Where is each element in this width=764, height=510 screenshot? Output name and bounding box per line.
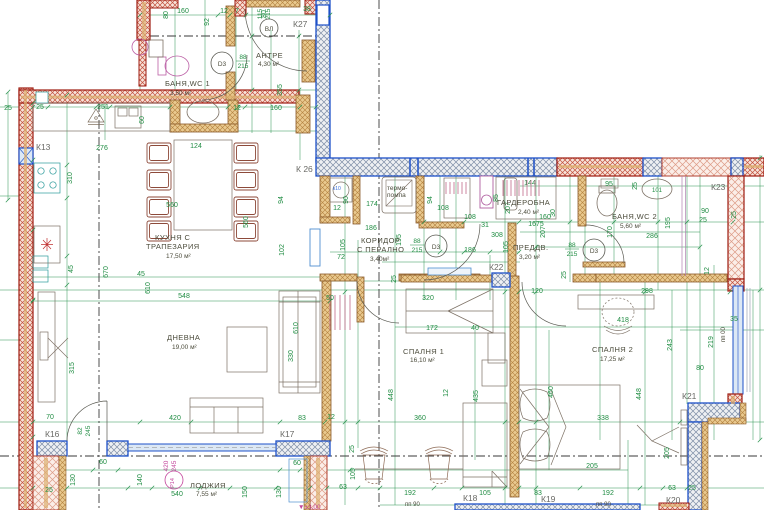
svg-text:31: 31 bbox=[481, 222, 489, 229]
svg-text:25: 25 bbox=[45, 487, 53, 494]
svg-text:105: 105 bbox=[340, 239, 347, 251]
svg-text:3,40м²: 3,40м² bbox=[370, 256, 390, 263]
svg-text:92: 92 bbox=[204, 18, 211, 26]
svg-text:25: 25 bbox=[561, 271, 568, 279]
svg-text:К16: К16 bbox=[45, 429, 60, 439]
svg-text:130: 130 bbox=[276, 486, 283, 498]
svg-text:207: 207 bbox=[540, 226, 547, 238]
svg-text:пп 90: пп 90 bbox=[405, 502, 421, 508]
svg-text:КОРИДОР: КОРИДОР bbox=[361, 236, 400, 245]
svg-text:95: 95 bbox=[605, 181, 613, 188]
svg-text:420: 420 bbox=[169, 415, 181, 422]
svg-text:5,60 м²: 5,60 м² bbox=[620, 223, 642, 230]
svg-text:25: 25 bbox=[632, 182, 639, 190]
svg-text:90: 90 bbox=[701, 208, 709, 215]
svg-text:215: 215 bbox=[238, 63, 249, 70]
svg-text:К23: К23 bbox=[711, 182, 726, 192]
svg-text:276: 276 bbox=[96, 145, 108, 152]
svg-text:ЛОДЖИЯ: ЛОДЖИЯ bbox=[190, 481, 226, 490]
svg-text:101: 101 bbox=[652, 188, 663, 194]
svg-text:40: 40 bbox=[471, 325, 479, 332]
svg-text:82: 82 bbox=[77, 427, 84, 435]
svg-text:ДНЕВНА: ДНЕВНА bbox=[167, 333, 200, 342]
svg-text:80: 80 bbox=[163, 11, 170, 19]
svg-text:310: 310 bbox=[67, 172, 74, 184]
svg-text:435: 435 bbox=[473, 390, 480, 402]
svg-text:83: 83 bbox=[298, 415, 306, 422]
svg-text:63: 63 bbox=[339, 484, 347, 491]
svg-text:12: 12 bbox=[233, 105, 241, 112]
svg-text:12: 12 bbox=[327, 414, 335, 421]
svg-text:205: 205 bbox=[586, 463, 598, 470]
svg-text:245: 245 bbox=[171, 460, 178, 471]
svg-text:70: 70 bbox=[46, 414, 54, 421]
svg-text:25: 25 bbox=[4, 105, 12, 112]
svg-text:12: 12 bbox=[220, 8, 228, 15]
svg-text:СПАЛНЯ 2: СПАЛНЯ 2 bbox=[592, 345, 633, 354]
svg-text:25: 25 bbox=[699, 217, 707, 224]
svg-text:25: 25 bbox=[349, 445, 356, 453]
svg-text:3,20 м²: 3,20 м² bbox=[519, 254, 541, 261]
svg-text:ВЛ: ВЛ bbox=[265, 26, 274, 33]
svg-text:251: 251 bbox=[97, 104, 109, 111]
svg-text:16,10 м²: 16,10 м² bbox=[410, 357, 436, 364]
svg-text:2,40 м²: 2,40 м² bbox=[518, 209, 540, 216]
svg-text:D3: D3 bbox=[432, 244, 441, 251]
svg-text:ГАРДЕРОБНА: ГАРДЕРОБНА bbox=[497, 198, 550, 207]
svg-text:338: 338 bbox=[597, 415, 609, 422]
svg-text:610: 610 bbox=[145, 282, 152, 294]
svg-text:25: 25 bbox=[731, 211, 738, 219]
svg-text:448: 448 bbox=[636, 388, 643, 400]
svg-text:115: 115 bbox=[257, 8, 264, 19]
svg-text:К13: К13 bbox=[36, 142, 51, 152]
svg-text:ПРЕДДВ.: ПРЕДДВ. bbox=[513, 243, 548, 252]
svg-text:К18: К18 bbox=[463, 493, 478, 503]
svg-text:к10: к10 bbox=[333, 186, 341, 192]
svg-text:315: 315 bbox=[69, 362, 76, 374]
svg-text:160: 160 bbox=[177, 8, 189, 15]
svg-text:63: 63 bbox=[668, 485, 676, 492]
svg-text:25: 25 bbox=[36, 104, 44, 111]
svg-text:144: 144 bbox=[524, 180, 536, 187]
svg-text:7,55 м²: 7,55 м² bbox=[196, 491, 218, 498]
svg-text:17,25 м²: 17,25 м² bbox=[600, 356, 626, 363]
svg-text:172: 172 bbox=[426, 325, 438, 332]
svg-text:610: 610 bbox=[293, 322, 300, 334]
svg-text:БАНЯ,WC 1: БАНЯ,WC 1 bbox=[165, 79, 210, 88]
svg-text:термо-: термо- bbox=[387, 185, 407, 192]
svg-text:12: 12 bbox=[704, 267, 711, 275]
svg-text:3,50 м²: 3,50 м² bbox=[170, 90, 192, 97]
svg-text:670: 670 bbox=[103, 266, 110, 278]
svg-text:12: 12 bbox=[443, 389, 450, 397]
svg-text:19,00 м²: 19,00 м² bbox=[172, 344, 198, 351]
svg-text:120: 120 bbox=[531, 288, 543, 295]
svg-text:245: 245 bbox=[85, 425, 92, 436]
svg-text:94: 94 bbox=[427, 196, 434, 204]
svg-text:215: 215 bbox=[412, 247, 423, 254]
svg-text:140: 140 bbox=[137, 474, 144, 486]
svg-text:D3: D3 bbox=[590, 248, 599, 255]
svg-text:330: 330 bbox=[288, 350, 295, 362]
svg-text:460: 460 bbox=[548, 386, 555, 398]
svg-text:СПАЛНЯ 1: СПАЛНЯ 1 bbox=[403, 347, 444, 356]
svg-text:108: 108 bbox=[437, 205, 449, 212]
svg-text:30: 30 bbox=[550, 209, 557, 217]
svg-text:205: 205 bbox=[664, 447, 671, 459]
svg-text:45: 45 bbox=[137, 271, 145, 278]
svg-text:418: 418 bbox=[617, 317, 629, 324]
svg-text:К 26: К 26 bbox=[296, 164, 313, 174]
svg-text:308: 308 bbox=[491, 232, 503, 239]
svg-text:17,50 м²: 17,50 м² bbox=[166, 253, 192, 260]
svg-text:D3: D3 bbox=[218, 61, 227, 68]
svg-text:548: 548 bbox=[178, 293, 190, 300]
svg-text:105: 105 bbox=[350, 468, 357, 480]
svg-text:88: 88 bbox=[568, 242, 576, 249]
svg-text:174: 174 bbox=[366, 201, 378, 208]
svg-text:560: 560 bbox=[166, 202, 178, 209]
svg-text:219: 219 bbox=[708, 336, 715, 348]
svg-text:90: 90 bbox=[343, 196, 350, 204]
svg-text:243: 243 bbox=[667, 339, 674, 351]
svg-text:35: 35 bbox=[730, 316, 738, 323]
svg-text:105: 105 bbox=[479, 490, 491, 497]
svg-text:12: 12 bbox=[333, 205, 341, 212]
svg-text:320: 320 bbox=[422, 295, 434, 302]
svg-text:Р14: Р14 bbox=[170, 478, 176, 488]
svg-text:192: 192 bbox=[602, 490, 614, 497]
svg-text:К20: К20 bbox=[666, 495, 681, 505]
svg-text:94: 94 bbox=[278, 196, 285, 204]
svg-text:130: 130 bbox=[70, 474, 77, 486]
svg-text:540: 540 bbox=[171, 491, 183, 498]
svg-text:пп 00: пп 00 bbox=[721, 326, 727, 342]
svg-text:195: 195 bbox=[665, 217, 672, 229]
svg-text:38: 38 bbox=[303, 6, 311, 13]
svg-text:88: 88 bbox=[239, 54, 247, 61]
svg-text:К27: К27 bbox=[293, 19, 308, 29]
svg-text:помпа: помпа bbox=[387, 192, 406, 199]
svg-text:ТРАПЕЗАРИЯ: ТРАПЕЗАРИЯ bbox=[146, 242, 200, 251]
svg-text:124: 124 bbox=[190, 143, 202, 150]
svg-text:150: 150 bbox=[242, 486, 249, 498]
svg-text:К17: К17 bbox=[280, 429, 295, 439]
svg-text:60: 60 bbox=[139, 116, 146, 124]
svg-text:355: 355 bbox=[277, 84, 284, 96]
svg-text:192: 192 bbox=[404, 490, 416, 497]
svg-text:КУХНЯ С: КУХНЯ С bbox=[155, 233, 191, 242]
svg-text:▼±3,00: ▼±3,00 bbox=[298, 504, 321, 510]
svg-text:102: 102 bbox=[279, 244, 286, 256]
svg-text:448: 448 bbox=[388, 389, 395, 401]
svg-text:286: 286 bbox=[646, 233, 658, 240]
svg-text:360: 360 bbox=[414, 415, 426, 422]
svg-text:25: 25 bbox=[391, 275, 398, 283]
svg-text:560: 560 bbox=[243, 216, 250, 228]
svg-text:С ПЕРАЛНО: С ПЕРАЛНО bbox=[357, 245, 404, 254]
svg-text:7: 7 bbox=[235, 8, 239, 15]
svg-text:К21: К21 bbox=[682, 391, 697, 401]
svg-text:186: 186 bbox=[365, 225, 377, 232]
svg-text:160: 160 bbox=[270, 105, 282, 112]
svg-text:215: 215 bbox=[265, 8, 272, 19]
svg-text:45: 45 bbox=[68, 265, 75, 273]
svg-text:105: 105 bbox=[503, 241, 510, 253]
svg-text:72: 72 bbox=[337, 254, 345, 261]
svg-text:60: 60 bbox=[293, 460, 301, 467]
svg-text:4,30 м²: 4,30 м² bbox=[258, 61, 280, 68]
svg-text:К19: К19 bbox=[541, 494, 556, 504]
svg-text:420: 420 bbox=[163, 460, 170, 471]
svg-text:60: 60 bbox=[99, 459, 107, 466]
svg-text:К22: К22 bbox=[489, 262, 504, 272]
svg-text:БАНЯ,WC 2: БАНЯ,WC 2 bbox=[612, 212, 657, 221]
svg-text:88: 88 bbox=[413, 238, 421, 245]
svg-text:80: 80 bbox=[696, 365, 704, 372]
svg-text:АНТРЕ: АНТРЕ bbox=[256, 51, 283, 60]
svg-text:215: 215 bbox=[567, 251, 578, 258]
svg-text:170: 170 bbox=[607, 226, 614, 238]
svg-text:пп 90: пп 90 bbox=[596, 502, 612, 508]
